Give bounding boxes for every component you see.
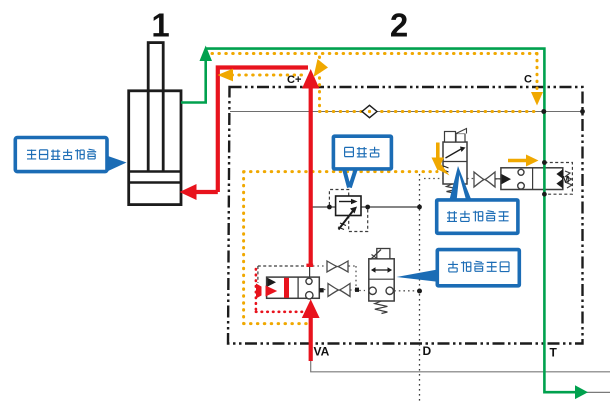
svg-text:D: D <box>423 344 432 358</box>
svg-text:C: C <box>524 74 532 86</box>
svg-text:M: M <box>562 175 570 186</box>
svg-text:C+: C+ <box>287 74 301 86</box>
svg-text:1: 1 <box>151 7 169 44</box>
svg-text:T: T <box>550 346 558 360</box>
svg-text:VA: VA <box>314 345 330 359</box>
svg-text:2: 2 <box>390 7 408 44</box>
